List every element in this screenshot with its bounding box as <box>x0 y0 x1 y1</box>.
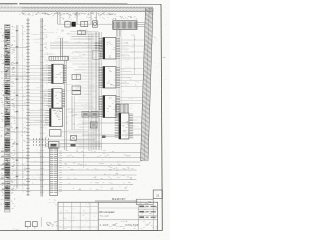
svg-text:MEMORY: MEMORY <box>112 197 126 201</box>
svg-text:21: 21 <box>156 193 160 197</box>
svg-text:RC-compact: RC-compact <box>100 210 115 214</box>
svg-text:Thyr.-regler: Thyr.-regler <box>100 215 110 218</box>
svg-text:1.1CP__39_____0/50: 1.1CP__39_____0/50 <box>100 224 133 227</box>
